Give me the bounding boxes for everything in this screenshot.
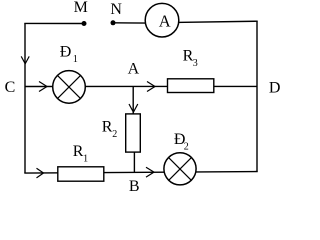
current arrow on bottom wire after node B (rightward): [146, 167, 154, 177]
svg-text:1: 1: [83, 154, 88, 165]
current arrow on left vertical wire (downward): [21, 56, 29, 63]
label R1 (resistor 1 designator): [73, 143, 88, 165]
wire: vertical segment node A down to resistor R2: [132, 87, 134, 115]
resistor R1 (box): [58, 167, 104, 181]
wire: left vertical C branch (top corner to bottom corner): [24, 23, 26, 173]
lamp D2 (circle with cross): [164, 153, 196, 185]
wire: vertical segment resistor R2 down to node B: [133, 152, 135, 172]
wire: top left segment from corner to switch contact M: [24, 22, 84, 24]
current arrow on bottom wire before R1 (rightward): [37, 168, 44, 178]
wire: top segment from switch contact N to ammeter: [113, 22, 148, 24]
label R2 (resistor 2 designator): [102, 119, 117, 141]
svg-text:Đ: Đ: [60, 43, 72, 60]
resistor R2 (box): [126, 114, 141, 152]
wire: middle branch C to D through lamp D1, node A and resistor R3: [25, 85, 258, 87]
ammeter A: [145, 3, 179, 37]
svg-text:1: 1: [73, 54, 78, 65]
wire: top segment from ammeter to right corner: [176, 21, 258, 22]
svg-text:2: 2: [184, 142, 189, 153]
svg-text:N: N: [110, 1, 122, 18]
svg-text:M: M: [74, 0, 88, 16]
svg-text:C: C: [5, 79, 16, 96]
current arrow on middle wire after node A (rightward): [147, 82, 155, 92]
svg-text:2: 2: [112, 129, 117, 140]
svg-text:R: R: [102, 119, 113, 136]
label D2 (lamp 2 designator): [174, 131, 189, 153]
svg-text:3: 3: [193, 58, 198, 69]
label D1 (lamp 1 designator): [60, 43, 78, 65]
switch contact M (dot): [82, 21, 87, 26]
current arrow on middle wire before lamp D1 (rightward): [39, 82, 47, 92]
svg-text:D: D: [269, 80, 281, 97]
svg-text:B: B: [129, 178, 140, 193]
resistor R3 (box): [168, 79, 214, 93]
lamp D1 (circle with cross): [53, 71, 86, 104]
wire: right vertical D branch: [256, 21, 258, 172]
switch contact N (dot): [111, 20, 116, 25]
current arrow on R2 branch (downward): [129, 104, 138, 112]
svg-text:A: A: [159, 12, 171, 31]
label R3 (resistor 3 designator): [183, 48, 198, 70]
wire: bottom branch through resistor R1, node B and lamp D2: [24, 172, 257, 174]
svg-text:A: A: [128, 61, 140, 78]
